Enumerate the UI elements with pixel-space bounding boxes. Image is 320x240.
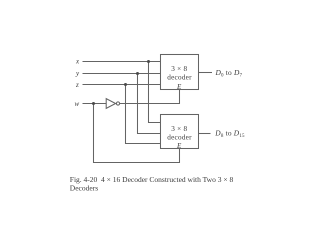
svg-text:D0 to D7: D0 to D7	[215, 68, 243, 78]
svg-text:decoder: decoder	[167, 133, 192, 141]
svg-text:D8 to D15: D8 to D15	[214, 129, 245, 139]
junction x	[147, 60, 150, 63]
svg-text:E: E	[176, 83, 182, 91]
wire output D8-D15	[199, 133, 211, 135]
wire x to lower decoder input A	[149, 62, 161, 123]
junction y	[136, 72, 139, 75]
svg-text:y: y	[75, 70, 80, 78]
decoder U1 box	[161, 55, 199, 90]
svg-text:E: E	[176, 142, 182, 150]
wire y to lower decoder input B	[138, 74, 161, 134]
junction w	[92, 102, 95, 105]
wire input w	[83, 103, 107, 105]
decoder U2 box	[161, 115, 199, 149]
wire input x	[83, 61, 161, 63]
inverter G1	[106, 99, 115, 109]
wire input y	[83, 73, 161, 75]
wire inverter output to E of U1	[120, 90, 180, 104]
svg-text:z: z	[75, 81, 79, 89]
wire input z	[83, 84, 161, 86]
wire output D0-D7	[199, 72, 213, 74]
svg-text:decoder: decoder	[167, 73, 192, 81]
svg-text:3 × 8: 3 × 8	[171, 65, 187, 73]
svg-text:w: w	[75, 100, 80, 108]
wire z to lower decoder input C	[126, 85, 161, 144]
svg-text:3 × 8: 3 × 8	[171, 125, 187, 133]
svg-text:Decoders: Decoders	[70, 184, 98, 193]
junction z	[124, 83, 127, 86]
wire w to E of U2	[94, 104, 180, 163]
svg-text:x: x	[75, 58, 80, 66]
